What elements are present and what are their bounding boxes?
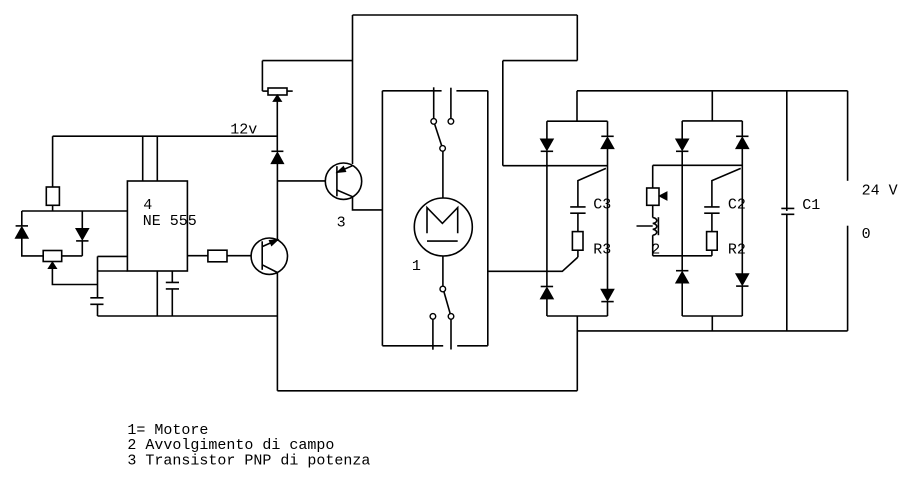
svg-text:12v: 12v — [230, 121, 257, 138]
resistor R3 — [572, 232, 583, 251]
switch S1 contact left — [431, 119, 437, 125]
wire ground bottom rail — [277, 390, 577, 392]
wire left bridge left leg middle — [546, 151, 548, 286]
capacitor C1 — [781, 208, 794, 214]
wire node A junction line to left bridge — [503, 165, 608, 167]
wire pot P1 wiper stem — [52, 268, 97, 284]
wire ground rail — [98, 315, 278, 317]
wire capacitor C1 top feed — [786, 91, 788, 211]
wire winding left tap — [637, 225, 653, 227]
wire right bridge left leg upper — [681, 121, 683, 139]
wire U1 left pin stub — [98, 255, 128, 257]
capacitor C2 — [704, 207, 719, 213]
wire U1 pin 8 to 12v — [142, 136, 144, 181]
switch S1 contact right — [448, 119, 454, 125]
wire U1 bottom-left extension — [98, 270, 128, 272]
wire right bridge left leg middle — [681, 151, 683, 270]
motor frame bottom edge — [382, 345, 487, 347]
svg-text:4: 4 — [143, 197, 152, 214]
wire right bridge top rail — [682, 120, 742, 122]
svg-text:C3: C3 — [593, 197, 611, 214]
wire trimmer left vertical — [261, 61, 263, 92]
wire right bridge right leg middle — [741, 149, 743, 274]
resistor R4 base resistor — [208, 250, 227, 262]
wire left bridge left leg upper — [546, 121, 548, 139]
wire capacitor C1 bottom feed — [786, 214, 788, 331]
wire trimmer right stub — [287, 90, 293, 92]
pot P1 wiper arrow — [49, 262, 57, 268]
diode D1 — [16, 225, 28, 227]
wire diode D1 top — [21, 211, 23, 226]
wire top outline left vertical — [352, 15, 354, 164]
switch S2 contact right — [448, 314, 454, 320]
svg-text:C2: C2 — [728, 197, 746, 214]
resistor R1 — [46, 187, 59, 205]
diode D11 — [736, 274, 748, 285]
resistor R2 — [707, 232, 718, 251]
inductor L1 field winding — [653, 218, 657, 236]
wire rheostat top feed — [652, 165, 654, 188]
wire R3 bottom stub — [577, 250, 579, 257]
wire capacitor C5 top — [171, 271, 173, 282]
wire top outline horizontal — [353, 14, 578, 16]
switch S1 terminal stub right — [450, 88, 452, 119]
diode D8 — [676, 139, 688, 150]
wire rheostat to winding — [652, 205, 654, 217]
wire right bridge right leg upper — [741, 121, 743, 136]
wire Q3 base line — [277, 180, 337, 182]
wire left bridge top rail — [547, 120, 608, 122]
wire right bridge top feed — [711, 91, 713, 121]
wire S1 to motor — [442, 151, 444, 198]
svg-text:NE 555: NE 555 — [143, 213, 197, 230]
wire motor to S2 — [442, 256, 444, 286]
wire left bridge right leg lower — [607, 302, 609, 316]
motor frame right edge — [487, 91, 489, 346]
wire Q1 collector to ground rail — [276, 273, 278, 391]
wire top outline step horizontal — [503, 60, 578, 62]
wire Q3 collector route to motor frame — [353, 197, 383, 210]
svg-text:24 V: 24 V — [862, 182, 898, 199]
switch S1 blade — [435, 124, 442, 146]
wire U1 output pin 3 — [187, 255, 208, 257]
transistor Q3 PNP — [325, 163, 361, 199]
rheostat R5 body — [647, 188, 659, 205]
wire C2 to R2 — [711, 213, 713, 231]
wire right bridge bottom rail — [682, 315, 742, 317]
wire right bridge right leg lower — [741, 286, 743, 316]
wire trimmer left stub — [262, 90, 268, 92]
switch S2 terminal stub right — [450, 319, 452, 349]
wire battery positive lead — [847, 91, 849, 181]
diode D7 — [601, 289, 613, 300]
diode D6 — [601, 135, 613, 137]
wire diode D1 bottom — [22, 238, 43, 256]
wire battery negative lead — [847, 226, 849, 331]
diode D9 — [676, 270, 688, 272]
capacitor C5 — [166, 282, 179, 289]
svg-text:R2: R2 — [728, 242, 746, 259]
wire left bridge bottom feed to ground — [576, 316, 578, 391]
transistor Q1 — [251, 238, 287, 274]
inductor L1 core bar — [657, 217, 659, 235]
wire right bridge left leg lower — [681, 283, 683, 316]
wire R4 to Q1 base — [227, 255, 251, 257]
switch S2 terminal stub left — [432, 319, 434, 350]
svg-text:3: 3 — [337, 215, 346, 232]
svg-text:R3: R3 — [593, 242, 611, 259]
wire right bridge junction line — [653, 164, 743, 166]
svg-text:2: 2 — [651, 242, 660, 259]
wire U1 pin 4 to 12v — [156, 136, 158, 181]
rheostat R5 arrow — [660, 192, 667, 200]
wire 12v column vertical upper — [276, 101, 278, 151]
motor M1 body — [414, 198, 472, 256]
wire 12v column vertical lower — [276, 164, 278, 240]
motor frame top edge — [382, 90, 487, 92]
wire left cap feed vertical — [97, 256, 99, 297]
wire 12v rail — [53, 135, 278, 137]
wire diode D2 top — [81, 211, 83, 229]
wire left bridge right leg middle — [607, 149, 609, 290]
switch S1 terminal stub left — [433, 87, 435, 118]
diode D10 — [736, 135, 748, 137]
svg-text:0: 0 — [862, 226, 871, 243]
wire C3 diagonal tap — [578, 168, 606, 207]
wire left bridge right leg upper — [607, 121, 609, 136]
svg-text:3 Transistor PNP di potenza: 3 Transistor PNP di potenza — [127, 453, 370, 470]
wire motor right terminal — [488, 257, 578, 271]
wire right bridge bottom feed — [711, 316, 713, 331]
wire R2 bottom stub — [711, 250, 713, 256]
op-amp U1 NE 555 body — [127, 181, 187, 271]
motor M glyph — [427, 208, 458, 234]
wire winding bottom rail to R2 — [653, 255, 712, 257]
wire top outline right vertical — [576, 15, 578, 61]
svg-text:1: 1 — [412, 258, 421, 275]
wire left bridge left leg lower — [546, 299, 548, 316]
wire capacitor C5 bottom — [171, 289, 173, 316]
wire trimmer top link horizontal — [262, 60, 352, 62]
motor M underline — [427, 240, 458, 242]
wire diode D2 bottom — [81, 241, 83, 256]
wire step vertical to node A — [502, 61, 504, 166]
switch S2 contact left — [430, 314, 436, 320]
diode D2 — [76, 229, 88, 240]
diode D5 — [541, 286, 553, 288]
wire U1 pin 1 to ground — [156, 271, 158, 316]
motor frame left edge — [381, 91, 383, 346]
diode D4 — [541, 139, 553, 150]
switch S1 pole contact — [440, 146, 446, 152]
wire C3 to R3 — [577, 213, 579, 231]
capacitor C3 — [570, 207, 585, 213]
capacitor C4 — [90, 298, 103, 305]
wire pin line to NE555 — [22, 210, 128, 212]
svg-text:C1: C1 — [802, 197, 820, 214]
wire winding bottom — [652, 235, 654, 256]
wire capacitor C4 bottom — [97, 304, 99, 316]
trimmer P2 wiper arrow — [273, 95, 281, 101]
wire resistor R1 top feed — [52, 136, 54, 187]
potentiometer P1 — [43, 251, 62, 262]
wire resistor R1 bottom stub — [52, 205, 54, 211]
wire C2 diagonal tap — [712, 168, 741, 207]
wire lower rail — [577, 330, 847, 332]
wire top rail 24V — [577, 90, 848, 92]
wire left bridge top feed — [576, 91, 578, 121]
wire pot P1 right link — [62, 255, 83, 257]
wire left bridge bottom rail — [547, 315, 608, 317]
switch S2 pole contact — [440, 286, 446, 292]
trimmer P2 body — [268, 88, 287, 95]
switch S2 blade — [444, 292, 450, 314]
diode D3 — [271, 150, 283, 152]
